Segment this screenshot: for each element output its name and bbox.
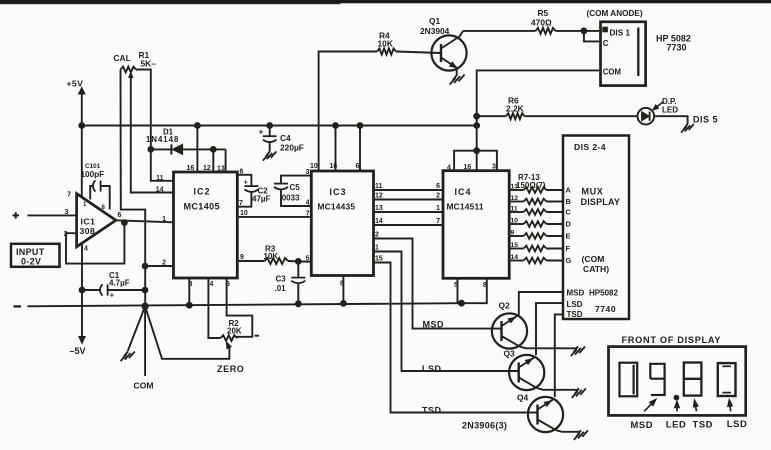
node rail junction IC3 pin16 <box>333 123 339 129</box>
svg-text:(COM: (COM <box>582 254 605 264</box>
svg-text:47µF: 47µF <box>252 195 271 204</box>
wire R6 to LED <box>525 115 638 117</box>
transistor Q3 2N3906 <box>504 349 578 391</box>
svg-text:6: 6 <box>240 169 244 176</box>
D.P. LED pointer arrow <box>653 102 664 111</box>
DIS 5 label <box>693 114 718 124</box>
svg-text:F: F <box>566 244 571 253</box>
svg-text:5: 5 <box>306 255 310 262</box>
svg-text:MC14511: MC14511 <box>447 202 484 212</box>
svg-text:1: 1 <box>436 205 440 212</box>
node C1 left junction <box>79 287 85 293</box>
pin 5 label IC4 <box>454 282 458 289</box>
wire IC3 pin 2 MSD line <box>374 232 502 329</box>
svg-text:4: 4 <box>84 246 88 253</box>
wire IC3 pin 10 up to R4 <box>319 52 377 172</box>
pin 10 label IC2 <box>240 210 248 217</box>
pin 10 label IC3 <box>310 163 318 170</box>
diode D1 1N4148 <box>146 127 226 154</box>
node R6 junction <box>474 113 480 119</box>
pin 4 label IC4 <box>447 164 451 171</box>
pin 3 label IC4 <box>492 164 496 171</box>
D.P. LED label <box>662 97 678 115</box>
LED pointer arrow <box>675 401 680 412</box>
pin 11 label IC2 <box>156 175 164 182</box>
wire Q1 collector line <box>463 30 536 32</box>
svg-text:4: 4 <box>306 200 310 207</box>
pin 1 label IC1 <box>83 202 87 208</box>
svg-text:2: 2 <box>436 192 440 199</box>
wire IC3 pin 12 to IC4 pin 2 <box>374 192 444 199</box>
svg-text:308: 308 <box>80 226 96 236</box>
svg-text:7740: 7740 <box>595 304 616 314</box>
svg-text:13: 13 <box>217 166 225 173</box>
svg-text:2: 2 <box>375 232 379 239</box>
7740 label <box>595 304 616 314</box>
pin 5 label IC2 <box>226 281 230 288</box>
svg-text:C5: C5 <box>290 183 301 192</box>
svg-text:0-2V: 0-2V <box>21 257 41 267</box>
svg-text:16: 16 <box>187 165 195 172</box>
svg-text:5K–: 5K– <box>141 59 157 69</box>
svg-text:DIS 5: DIS 5 <box>693 114 718 124</box>
node R3 C3 junction <box>295 259 301 265</box>
MSD front label <box>631 419 654 430</box>
svg-text:9: 9 <box>240 254 244 261</box>
svg-text:6: 6 <box>118 212 122 219</box>
svg-text:12: 12 <box>375 193 383 200</box>
ground under LED DIS5 <box>681 124 694 133</box>
svg-text:COM: COM <box>603 67 621 76</box>
svg-text:4.7µF: 4.7µF <box>109 279 130 288</box>
resistor segment A wire IC4 pin 13 <box>509 184 571 195</box>
pin 6 label IC3 <box>356 163 360 170</box>
svg-text:IC3: IC3 <box>330 187 347 197</box>
wire R1 right end down to D1 cathode <box>136 70 151 150</box>
wire IC4 pin 5 to bus <box>458 278 462 303</box>
svg-text:220µF: 220µF <box>280 143 304 153</box>
resistor segment F wire IC4 pin 15 <box>509 242 570 253</box>
wire IC4 pin 8 to bus <box>462 278 487 303</box>
MSD HP5082 pin label <box>567 288 619 297</box>
node common junction <box>142 303 148 309</box>
svg-text:IC4: IC4 <box>455 187 472 197</box>
MSD line label <box>423 319 445 329</box>
svg-text:–5V: –5V <box>70 346 86 356</box>
IC3 MC14435 <box>311 171 373 276</box>
INPUT 0-2V label box <box>11 244 60 267</box>
wire IC4 supply bracket <box>454 151 497 171</box>
TSD line label <box>422 405 442 415</box>
capacitor C1 4.7uF <box>82 271 145 300</box>
svg-text:3: 3 <box>65 209 69 216</box>
MSD pointer arrow <box>644 399 656 411</box>
svg-text:MUX: MUX <box>582 187 604 197</box>
pin 4 label IC2 <box>210 281 214 288</box>
pin 8 label IC3 <box>340 281 344 288</box>
pin 16 label IC2 <box>187 165 195 172</box>
svg-text:Q3: Q3 <box>504 349 516 359</box>
wire junction to R2 wiper (ZERO) <box>145 306 231 359</box>
svg-text:13: 13 <box>511 184 519 191</box>
pin 4 label IC1 <box>84 246 88 253</box>
page top edge border <box>0 0 771 4</box>
LED front label <box>666 419 687 430</box>
node rail end junction <box>474 123 480 129</box>
resistor R4 10K <box>377 31 396 55</box>
svg-text:4: 4 <box>447 164 451 171</box>
LSD front label <box>727 418 748 429</box>
svg-text:8: 8 <box>102 205 106 211</box>
TSD pin label <box>567 310 583 319</box>
wire D1 anode to IC2 pin 12 <box>212 149 214 172</box>
node +5V rail junction at x81 <box>79 123 85 129</box>
wire IC3 pin 1 LSD line <box>374 245 519 371</box>
svg-text:HP5082: HP5082 <box>589 288 618 297</box>
svg-text:FRONT OF DISPLAY: FRONT OF DISPLAY <box>622 335 722 345</box>
wire Q3 emitter to DIS LSD <box>536 303 563 355</box>
wire IC1 pin4 to -5V <box>81 290 83 339</box>
svg-text:E: E <box>566 232 571 241</box>
pin 4 label IC3 <box>306 200 310 207</box>
svg-text:C: C <box>566 208 572 217</box>
node C1 right junction <box>142 287 148 293</box>
node IC3 pin 8 bus junction <box>341 301 347 307</box>
svg-text:+: + <box>244 178 249 187</box>
IC2 MC1405 <box>174 172 238 278</box>
svg-text:6: 6 <box>356 163 360 170</box>
ground under C4 <box>263 152 276 161</box>
wire R3 to IC3 pin 5 <box>288 255 311 262</box>
wire input + terminal to IC1 pin 3 <box>13 209 77 218</box>
node rail junction IC2 pin 16 <box>195 123 201 129</box>
svg-text:A: A <box>566 186 572 195</box>
wire R1 left end down <box>121 70 146 307</box>
capacitor C101 100pF <box>81 163 110 209</box>
svg-text:7: 7 <box>67 192 71 199</box>
wire junction to chassis ground <box>128 306 145 351</box>
wire R5 to DIS1 <box>556 30 601 32</box>
svg-text:1: 1 <box>83 202 87 208</box>
svg-text:.01: .01 <box>275 284 287 293</box>
svg-text:5: 5 <box>226 281 230 288</box>
svg-text:12: 12 <box>203 165 211 172</box>
resistor segment E wire IC4 pin 9 <box>509 230 570 241</box>
wire IC2 pin 16 to +5V rail <box>196 126 198 173</box>
wire LED to ground <box>654 116 688 124</box>
transistor Q1 2N3904 <box>420 16 467 75</box>
resistor segment G wire IC4 pin 14 <box>509 254 571 265</box>
ground under Q4 <box>574 430 588 440</box>
wire +5V rail <box>82 125 477 127</box>
svg-text:C: C <box>603 39 609 48</box>
wire common bus <box>27 303 461 306</box>
LED D.P. DIS5 <box>638 108 655 125</box>
svg-text:Q1: Q1 <box>429 16 441 26</box>
svg-text:TSD: TSD <box>422 405 442 415</box>
input - terminal <box>14 305 22 307</box>
capacitor C3 .01 <box>275 261 306 303</box>
svg-text:Q4: Q4 <box>517 392 529 402</box>
wire IC1 feedback pin 2 to output <box>66 223 124 264</box>
pin 2 label IC1 <box>64 231 68 238</box>
wire IC3 pin 8 to bus <box>342 276 344 304</box>
svg-text:+: + <box>110 291 115 300</box>
svg-text:MSD: MSD <box>631 419 654 430</box>
TSD front label <box>693 419 714 430</box>
svg-text:D: D <box>566 220 572 229</box>
pin 16 label IC3 <box>330 163 338 170</box>
node IC1 output junction <box>122 220 128 226</box>
svg-text:3: 3 <box>306 169 310 176</box>
wire junction to COM <box>134 306 154 390</box>
front of display box <box>609 347 746 416</box>
svg-text:3: 3 <box>492 164 496 171</box>
decimal point LED dot <box>674 395 679 400</box>
svg-text:(COM ANODE): (COM ANODE) <box>587 9 643 18</box>
svg-text:1: 1 <box>375 245 379 252</box>
node IC2 pin 8 bus junction <box>186 302 192 308</box>
capacitor C4 220uF <box>259 126 304 153</box>
svg-text:LED: LED <box>662 105 678 114</box>
ground at common junction <box>121 352 135 362</box>
op-amp IC1 308 <box>77 194 116 247</box>
node D1 cathode junction <box>148 147 154 153</box>
wire branch to IC2 pin 2 <box>145 260 173 267</box>
svg-text:13: 13 <box>375 205 383 212</box>
ground under Q2 <box>571 347 585 357</box>
svg-text:Q2: Q2 <box>499 301 511 311</box>
svg-text:INPUT: INPUT <box>16 247 45 257</box>
pin 13 label IC2 <box>217 166 225 173</box>
svg-text:C3: C3 <box>276 274 287 283</box>
digit 9 <box>650 364 664 395</box>
wire junction to DIS1 pin C <box>584 31 601 42</box>
resistor R6 2.2K <box>477 96 525 120</box>
2N3906(3) label <box>462 420 507 430</box>
display DIS 2-4 MUX <box>563 136 629 320</box>
transistor Q2 2N3906 <box>492 301 577 349</box>
(COM ANODE) label <box>587 9 643 18</box>
wire IC3 pin 15 TSD line <box>374 256 538 413</box>
R7-13 150ohm(7) label <box>516 173 546 190</box>
pin 6 label IC2 <box>240 169 244 176</box>
LSD pointer arrow <box>728 399 733 411</box>
svg-text:2N3906(3): 2N3906(3) <box>462 420 507 430</box>
wire R4 to Q1 base <box>396 52 441 54</box>
svg-text:7: 7 <box>436 218 440 225</box>
node rail junction IC3 pin6 <box>357 123 363 129</box>
wire IC2 pin 9 to R3 <box>237 254 264 261</box>
wire IC2 pin 8 to bus <box>188 278 190 305</box>
svg-text:16: 16 <box>464 164 472 171</box>
node IC4 supply junction <box>474 148 480 154</box>
resistor segment C wire IC4 pin 11 <box>509 206 571 217</box>
capacitor C2 47uF <box>237 175 270 207</box>
svg-text:+5V: +5V <box>67 79 84 89</box>
svg-text:11: 11 <box>156 175 164 182</box>
svg-text:10K: 10K <box>264 252 279 261</box>
svg-text:4: 4 <box>210 281 214 288</box>
wire Q2 emitter to DIS MSD <box>519 292 563 315</box>
TSD pointer arrow <box>693 400 698 412</box>
pin 7 label IC2 <box>239 200 243 207</box>
wire R2 right end to IC2 pin 5 <box>227 278 259 338</box>
svg-text:CAL: CAL <box>114 53 131 63</box>
MUX DISPLAY label <box>581 187 621 208</box>
wire DIS1 COM to vertical <box>477 70 601 150</box>
svg-text:TSD: TSD <box>693 419 714 430</box>
resistor R3 10K <box>264 244 289 264</box>
svg-text:.0033: .0033 <box>280 193 301 202</box>
svg-text:C4: C4 <box>280 133 291 143</box>
svg-text:14: 14 <box>375 218 383 225</box>
svg-text:470Ω: 470Ω <box>531 18 552 28</box>
svg-text:LSD: LSD <box>422 364 442 374</box>
IC4 MC14511 <box>443 171 509 279</box>
svg-text:14: 14 <box>511 254 519 261</box>
resistor R5 470ohm <box>531 8 556 34</box>
svg-text:MSD: MSD <box>423 319 445 329</box>
svg-text:20K: 20K <box>227 326 242 335</box>
svg-text:9: 9 <box>511 230 515 237</box>
FRONT OF DISPLAY title <box>622 335 722 345</box>
wire IC3 pin 16 to rail <box>335 126 337 172</box>
ZERO label <box>217 364 244 374</box>
potentiometer R2 20K <box>221 319 242 341</box>
pin 14 label IC2 <box>156 187 164 194</box>
display DIS1 HP5082-7730 <box>601 22 646 86</box>
-5V supply terminal <box>70 337 86 357</box>
svg-text:11: 11 <box>511 206 518 213</box>
wire IC3 pin 11 to IC4 pin 6 <box>374 183 444 190</box>
node IC2 pin2 branch junction <box>142 263 148 269</box>
resistor segment B wire IC4 pin 12 <box>509 195 571 206</box>
wire D1 anode to IC2 pin 13 <box>225 149 227 172</box>
svg-text:IC2: IC2 <box>194 187 211 197</box>
capacitor C5 .0033 <box>274 176 311 206</box>
svg-text:2.2K: 2.2K <box>506 104 524 114</box>
digit MSD cell (1) <box>620 363 638 397</box>
svg-text:LSD: LSD <box>727 418 748 429</box>
(COM CATH) label <box>582 254 610 274</box>
svg-text:G: G <box>566 256 572 265</box>
ground under Q3 <box>572 388 586 398</box>
svg-text:+: + <box>259 127 264 137</box>
svg-text:DIS 1: DIS 1 <box>610 28 631 37</box>
svg-text:CATH): CATH) <box>583 264 609 274</box>
svg-text:1: 1 <box>162 216 166 223</box>
wire IC1 pin 4 down <box>81 245 83 291</box>
resistor segment D wire IC4 pin 10 <box>509 218 571 229</box>
pin 8 label IC4 <box>483 282 487 289</box>
svg-text:10: 10 <box>511 218 519 225</box>
svg-text:14: 14 <box>156 187 164 194</box>
svg-text:LED: LED <box>666 419 687 430</box>
LSD pin label <box>567 300 583 309</box>
pin 3 label IC3 <box>306 169 310 176</box>
svg-text:TSD: TSD <box>567 310 583 319</box>
svg-text:10: 10 <box>310 163 318 170</box>
wire R1 wiper to IC2 pin 14 <box>129 73 174 193</box>
svg-text:COM: COM <box>134 380 154 390</box>
node R5 DIS1 junction <box>581 28 587 34</box>
node bus end junction <box>459 300 465 306</box>
wire IC1 output to IC2 pin 1 <box>116 212 174 223</box>
wire IC2 pin 10 to IC3 pin 7 <box>237 216 311 218</box>
wire D1 cathode to IC2 pin 11 <box>151 149 174 180</box>
svg-text:7: 7 <box>239 200 243 207</box>
svg-text:MSD: MSD <box>567 288 585 297</box>
svg-text:2: 2 <box>162 260 166 267</box>
svg-text:7730: 7730 <box>667 42 687 52</box>
ground under Q1 <box>450 75 465 85</box>
svg-text:B: B <box>566 197 571 206</box>
wire IC3 pin 13 to IC4 pin 1 <box>374 205 444 212</box>
pin 8 label IC2 <box>189 281 193 288</box>
LSD line label <box>422 364 442 374</box>
pin 7 label IC3 <box>306 211 310 218</box>
svg-text:DIS 2-4: DIS 2-4 <box>574 142 606 152</box>
pin 16 label IC4 <box>464 164 472 171</box>
transistor Q4 2N3906 <box>517 392 580 432</box>
svg-text:MC14435: MC14435 <box>318 202 356 212</box>
svg-text:100pF: 100pF <box>81 170 105 179</box>
svg-text:DISPLAY: DISPLAY <box>581 197 621 207</box>
digit 8 <box>684 363 702 396</box>
wire +5V to IC1 pin 7 <box>67 126 82 199</box>
svg-text:1N4148: 1N4148 <box>146 135 179 144</box>
HP 5082 7730 label <box>656 33 691 52</box>
svg-text:15: 15 <box>511 242 519 249</box>
svg-text:11: 11 <box>375 183 383 190</box>
svg-text:2N3904: 2N3904 <box>420 26 450 36</box>
svg-text:MC1405: MC1405 <box>184 202 220 212</box>
wire IC3 pin 6 to rail <box>359 126 361 172</box>
svg-text:R5: R5 <box>538 8 549 18</box>
svg-text:6: 6 <box>436 183 440 190</box>
potentiometer R1 5K CAL <box>114 50 157 72</box>
node C3 bus junction <box>295 301 301 307</box>
+5V supply terminal <box>67 79 86 126</box>
digit 0 (LSD) <box>718 363 736 396</box>
svg-text:12: 12 <box>511 195 519 202</box>
node D1 anode to pin12 junction <box>210 147 216 153</box>
svg-text:15: 15 <box>375 256 383 263</box>
wire Q4 emitter to DIS TSD <box>555 314 563 397</box>
node rail junction C4 <box>267 123 273 129</box>
wire IC3 pin 14 to IC4 pin 7 <box>374 218 444 225</box>
svg-text:10K: 10K <box>378 38 393 48</box>
wire IC2 pin 4 to R2 <box>208 278 220 338</box>
pin 12 label IC2 <box>203 165 211 172</box>
svg-text:ZERO: ZERO <box>217 364 244 374</box>
svg-text:LSD: LSD <box>567 300 583 309</box>
svg-text:7: 7 <box>306 211 310 218</box>
pin 8 label IC1 <box>102 205 106 211</box>
